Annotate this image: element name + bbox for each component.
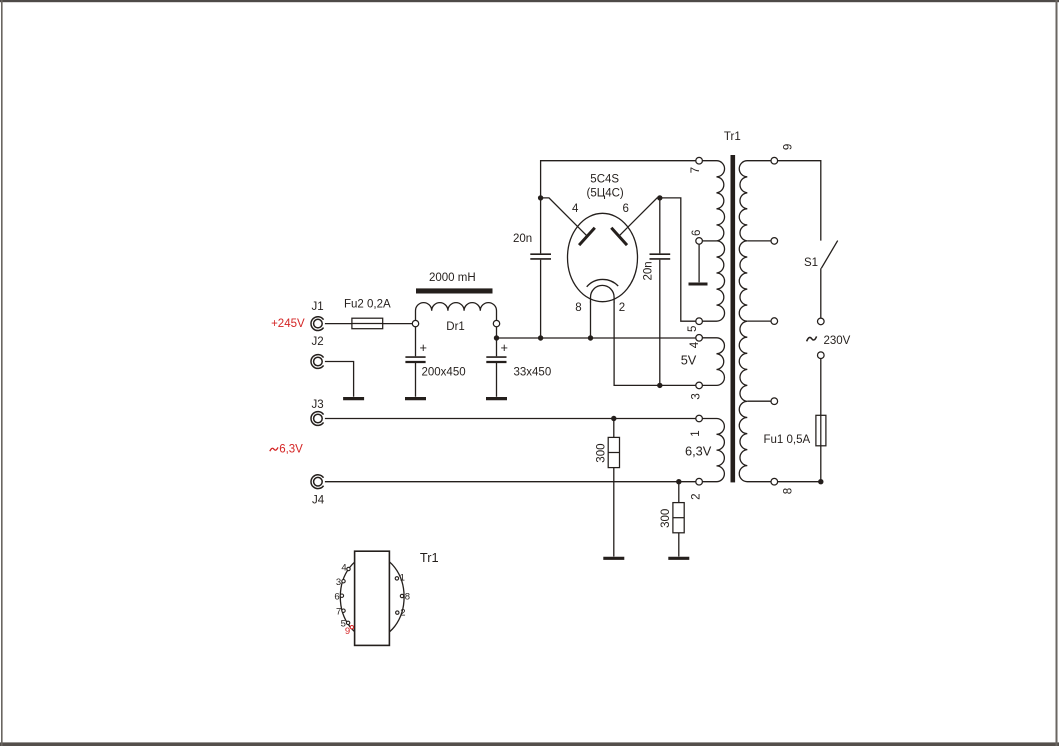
node dot pin2/20n — [657, 383, 662, 388]
wire Fu2 to Dr1 — [383, 323, 413, 325]
terminal 2 — [696, 478, 703, 485]
source terminal top — [818, 318, 825, 325]
node dot 20n left top — [538, 195, 543, 200]
filament dome arc — [587, 279, 619, 286]
terminal 1 — [696, 415, 703, 422]
winding 5V pins 4-3 — [702, 338, 724, 386]
transformer winding 7-6-5 — [702, 161, 724, 322]
ground pin 6 — [698, 244, 700, 282]
anode lead pin 4 — [541, 198, 586, 236]
terminal 7 — [696, 157, 703, 164]
socket Tr1 pinout circle — [340, 555, 404, 638]
svg-text:7: 7 — [690, 167, 702, 173]
connector J2 — [311, 355, 324, 369]
svg-text:3: 3 — [336, 577, 341, 588]
terminal 6 — [696, 238, 703, 245]
svg-text:2: 2 — [619, 302, 625, 314]
ground C2 — [486, 397, 507, 400]
fuse Fu1 — [816, 415, 826, 446]
svg-text:6: 6 — [691, 230, 703, 236]
svg-text:8: 8 — [575, 302, 581, 314]
socket pin 8 — [400, 594, 403, 597]
svg-text:9: 9 — [345, 626, 350, 637]
label ~6,3V — [270, 447, 278, 451]
anode plate pin 6 — [611, 228, 627, 245]
svg-text:6,3V: 6,3V — [685, 444, 712, 459]
socket pin 5 — [346, 621, 349, 624]
capacitor 20n left — [540, 198, 542, 254]
resistor R1 300 — [613, 419, 615, 438]
transformer core — [731, 155, 736, 482]
node dot R2 — [676, 479, 681, 484]
capacitor C1 200x450 — [415, 327, 417, 357]
terminal 9 — [771, 157, 778, 164]
primary tap terminal b — [771, 318, 778, 325]
svg-text:230V: 230V — [824, 335, 851, 347]
svg-text:5: 5 — [687, 326, 699, 332]
wire source to Fu1 — [820, 359, 822, 416]
primary tap leads — [747, 240, 771, 242]
svg-text:Fu2 0,2A: Fu2 0,2A — [344, 299, 391, 311]
node dot R1 — [611, 416, 616, 421]
node dot tube pin 8 — [588, 335, 593, 340]
resistor R2 300 — [678, 482, 680, 503]
terminal 8 — [771, 478, 778, 485]
terminal 4 — [696, 335, 703, 342]
fuse Fu2 — [352, 318, 383, 329]
socket pin 2 — [396, 611, 399, 614]
node dot 20n left bottom — [538, 335, 543, 340]
svg-text:+: + — [501, 340, 508, 355]
wire top to transformer pin 7 — [541, 161, 696, 198]
connector J1 — [311, 317, 324, 331]
svg-text:33x450: 33x450 — [514, 367, 552, 379]
main bus wire to transformer pin 4 — [497, 337, 696, 339]
rectifier tube 5C4S envelope — [568, 213, 638, 301]
node dot 20n right top — [657, 195, 662, 200]
node dot Fu1/pin8 — [818, 479, 823, 484]
svg-text:5C4S: 5C4S — [590, 173, 619, 185]
terminal 5 — [696, 318, 703, 325]
svg-text:6: 6 — [334, 591, 339, 602]
wire J2 to ground — [325, 362, 354, 397]
svg-text:+245V: +245V — [271, 318, 305, 330]
ground R1 — [603, 557, 624, 560]
svg-text:2: 2 — [690, 493, 702, 499]
svg-text:(5Ц4С): (5Ц4С) — [587, 188, 624, 200]
svg-text:Tr1: Tr1 — [724, 131, 741, 143]
primary tap terminal c — [771, 398, 778, 405]
ground J2 — [343, 397, 364, 400]
source terminal bottom — [818, 352, 825, 359]
ground C1 — [405, 397, 426, 400]
svg-text:Dr1: Dr1 — [446, 321, 465, 333]
tube pin 2 wire — [614, 302, 696, 386]
anode plate pin 4 — [579, 228, 595, 245]
node dot Dr1 output — [494, 335, 499, 340]
choke Dr1 — [416, 288, 493, 293]
switch S1 blade — [821, 241, 837, 269]
svg-text:7: 7 — [336, 606, 341, 617]
svg-text:1: 1 — [690, 430, 702, 436]
socket body rectangle — [355, 551, 390, 645]
svg-text:Fu1 0,5A: Fu1 0,5A — [764, 434, 811, 446]
svg-text:4: 4 — [572, 203, 579, 215]
wire Fu1 to pin 8 — [778, 446, 821, 482]
ground R2 — [668, 557, 689, 560]
tap 6 lead — [702, 240, 716, 242]
capacitor C2 33x450 — [496, 327, 498, 357]
svg-text:4: 4 — [689, 341, 701, 348]
wire J1 to Fu2 — [325, 323, 352, 325]
svg-text:1: 1 — [400, 573, 405, 584]
svg-text:S1: S1 — [804, 257, 818, 269]
svg-text:20n: 20n — [513, 233, 532, 245]
primary tap terminal a — [771, 238, 778, 245]
svg-text:J4: J4 — [312, 495, 325, 507]
capacitor 20n right — [659, 198, 661, 254]
wire S1 to source — [820, 268, 822, 318]
svg-text:J1: J1 — [312, 301, 324, 313]
wire 20n right to transformer pin 5 — [660, 198, 696, 321]
anode lead pin 6 — [620, 198, 660, 236]
svg-text:J3: J3 — [312, 399, 324, 411]
svg-text:8: 8 — [782, 488, 794, 494]
filament U heater — [591, 285, 615, 302]
svg-text:20n: 20n — [643, 261, 655, 280]
svg-text:2: 2 — [400, 607, 405, 618]
socket pin 3 — [342, 580, 345, 583]
wire J3 to transformer pin 1 — [311, 412, 324, 426]
wire pin 9 to S1 — [778, 161, 821, 241]
terminal 3 — [696, 382, 703, 389]
svg-text:+: + — [420, 340, 427, 355]
socket pin 6 — [340, 594, 343, 597]
socket pin 9 (red) — [350, 626, 353, 629]
svg-text:5V: 5V — [681, 352, 697, 367]
socket pin 7 — [342, 609, 345, 612]
svg-text:Tr1: Tr1 — [420, 550, 439, 565]
connector J4 wire to pin 2 — [311, 475, 324, 489]
svg-text:J2: J2 — [312, 336, 324, 348]
winding 6,3V pins 1-2 — [702, 419, 724, 482]
svg-text:300: 300 — [596, 444, 608, 463]
label ~ 230V — [807, 336, 817, 341]
svg-text:6: 6 — [623, 203, 629, 215]
svg-text:3: 3 — [690, 393, 702, 399]
svg-text:8: 8 — [405, 591, 410, 602]
svg-text:200x450: 200x450 — [422, 367, 466, 379]
svg-text:300: 300 — [660, 509, 672, 528]
svg-text:9: 9 — [782, 144, 794, 150]
primary winding right — [739, 161, 771, 482]
tube pin 8 wire — [590, 302, 592, 339]
svg-text:2000 mH: 2000 mH — [429, 272, 476, 284]
socket pin 4 — [347, 567, 350, 570]
svg-text:4: 4 — [341, 562, 346, 573]
svg-text:6,3V: 6,3V — [279, 444, 303, 456]
socket pin 1 — [395, 577, 398, 580]
